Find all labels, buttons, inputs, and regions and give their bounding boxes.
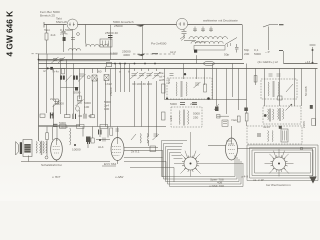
svg-text:Schaltdraht frei: Schaltdraht frei: [41, 163, 62, 167]
ganged capacitor link dashed right: [133, 53, 176, 55]
svg-text:100: 100: [104, 107, 109, 111]
svg-text:r2: r2: [43, 69, 46, 73]
tube socket A with pins: [184, 157, 197, 170]
parts left of V2: [88, 138, 90, 144]
wire x=294: [294, 69, 296, 107]
small box under coil: [194, 46, 225, 51]
power tube V2 oval: [111, 138, 124, 161]
resistor on wire 3: [100, 124, 108, 128]
resistor small: [56, 99, 59, 104]
svg-text:bei Wechselstrom: bei Wechselstrom: [266, 183, 291, 187]
resistor R1: [45, 33, 48, 40]
padder dark bar: [63, 37, 66, 41]
small resistor + link wire: [217, 115, 221, 119]
wire x=67: [66, 60, 68, 116]
dark blob right: [215, 107, 219, 112]
IF box 1 center dashed: [167, 78, 212, 99]
wire x=110: [110, 69, 112, 127]
svg-text:Pw 2x4500: Pw 2x4500: [151, 42, 167, 46]
capacitor C2: [108, 36, 113, 38]
wire x=54: [53, 69, 55, 127]
wire x=204: [204, 69, 206, 86]
wire dash right end: [279, 50, 283, 52]
ganged capacitor link dashes left: [32, 53, 39, 55]
arrow on dashed link: [137, 54, 146, 57]
trimmer ticks above box1: [170, 74, 174, 76]
wire x=212: [212, 64, 214, 100]
resistor on wire 1: [60, 124, 67, 128]
svg-text:2x1: 2x1: [50, 97, 55, 101]
wire x=125: [124, 64, 126, 93]
dark blob x=246: [244, 108, 248, 112]
svg-text:u 7D7: u 7D7: [52, 175, 61, 179]
svg-text:1312: 1312: [105, 82, 112, 86]
coil L2 humps: [86, 44, 108, 46]
svg-text:~ P: ~ P: [265, 50, 270, 54]
connecting wire: [165, 99, 247, 101]
svg-text:u NSF 708: u NSF 708: [209, 184, 224, 188]
svg-text:a: a: [119, 70, 121, 74]
wire x=156: [156, 69, 158, 138]
resistor R6: [65, 115, 71, 118]
electrolytic dark bars pair 2: [73, 76, 75, 80]
caps in filter: [257, 134, 261, 136]
svg-text:5000: 5000: [254, 52, 261, 56]
wire x=129.5: [129, 64, 131, 93]
svg-text:EVV 664: EVV 664: [104, 162, 116, 166]
svg-text:4000: 4000: [123, 53, 130, 57]
wire x=60: [60, 60, 62, 115]
rectifier tube V3 oval: [226, 138, 238, 160]
wire x=315: [315, 69, 317, 127]
parts inside box1 right: [194, 82, 201, 88]
label plate under V2: [102, 165, 116, 167]
diode D1: [51, 113, 54, 119]
svg-text:50p: 50p: [224, 53, 229, 57]
wire x=105: [105, 67, 107, 127]
wire x=301.5: [301, 69, 303, 107]
mid horizontal wire y=126.5: [39, 125, 167, 126]
wire x=92: [92, 69, 94, 116]
junction dots on bus B: [114, 63, 156, 65]
capacitor C9: [53, 124, 58, 126]
output tube V1 oval: [51, 138, 63, 160]
svg-text:Takt: Takt: [44, 28, 50, 32]
svg-text:25 4x: 25 4x: [60, 32, 68, 36]
svg-text:a b c d: a b c d: [196, 40, 206, 44]
dial lamp L2: [176, 18, 187, 29]
cap bars above V2: [99, 130, 102, 135]
svg-text:b: b: [128, 70, 130, 74]
wires from socket A to left: [162, 141, 188, 187]
wire x=46 lower: [46, 60, 48, 114]
bus A y=60: [39, 60, 243, 61]
trimmer row of 4: [130, 72, 161, 79]
coil L3 humps row2: [191, 41, 223, 43]
resistor below bus: [62, 68, 65, 74]
wire x=217: [216, 69, 218, 107]
arrow on top bus: [136, 25, 145, 27]
bandfilter box B1: [100, 39, 112, 47]
wire x=98: [97, 69, 99, 127]
trimmer C3: [182, 29, 187, 38]
svg-text:Tr 4x: Tr 4x: [52, 70, 59, 74]
svg-text:100: 100: [84, 105, 89, 109]
small circle node: [207, 97, 210, 100]
dark blob on link: [75, 87, 78, 91]
dial lamp L1: [67, 19, 78, 30]
wire end tick: [279, 24, 284, 26]
resistor above V2: [110, 128, 113, 135]
wire x=79: [79, 69, 81, 127]
svg-text:220V: 220V: [302, 120, 306, 128]
top bus wire y=24.5: [44, 24, 242, 26]
caps cluster between boxes: [180, 103, 197, 105]
bottom wire: [21, 161, 110, 163]
diag arrow: [131, 134, 136, 140]
wire x=134: [134, 69, 136, 127]
svg-text:60: 60: [98, 70, 102, 74]
svg-text:wahlweise mit Drucktaste: wahlweise mit Drucktaste: [203, 19, 238, 23]
choke windings right of V2: [140, 134, 141, 144]
svg-text:50 608: 50 608: [304, 86, 308, 96]
wire x=110 down: [110, 25, 112, 60]
tick above right rail: [310, 44, 316, 46]
svg-text:2000: 2000: [190, 102, 197, 106]
wire x=142 down: [142, 25, 144, 60]
heater wiring loops bottom: [162, 141, 319, 187]
svg-text:2x4: 2x4: [51, 33, 56, 37]
IF box 2 center dashed: [171, 107, 202, 127]
switch cluster box: [222, 120, 228, 126]
wire x=279: [279, 69, 281, 107]
ground arrow right: [312, 149, 314, 177]
svg-text:5000: 5000: [170, 102, 177, 106]
wire x=74: [73, 64, 75, 115]
diag arrow right: [214, 104, 219, 110]
dot: [51, 114, 53, 116]
box with X: [92, 75, 97, 81]
tube socket B with pins: [273, 157, 286, 170]
left rail x=39: [38, 54, 40, 142]
winding pair: [178, 111, 181, 125]
model label 4 GW 646 K: [5, 11, 15, 57]
socket A rim pin stubs: [182, 155, 199, 171]
junction circle on mains wire: [300, 147, 303, 150]
dark blob component: [86, 137, 91, 143]
winding pair: [175, 82, 178, 96]
IF transformer right box 2: [263, 106, 301, 124]
svg-text:w25: w25: [159, 78, 165, 82]
grid cap dot: [45, 156, 48, 159]
varistor left: [53, 100, 61, 107]
wire x=47 short: [46, 54, 48, 60]
wire x=255 short: [255, 69, 257, 86]
wire x=120: [120, 64, 122, 93]
resistor R5: [40, 114, 45, 117]
svg-text:25000: 25000: [109, 87, 113, 96]
oval core L4: [204, 61, 215, 65]
wire under L1: [72, 29, 74, 59]
bus B y=63.8: [39, 63, 318, 65]
ganged capacitor link wire: [39, 53, 118, 55]
svg-text:30 100 30 100: 30 100 30 100: [132, 82, 152, 86]
small box lower: [78, 96, 82, 101]
trimmer mid with arrow: [76, 100, 84, 107]
wire x=115: [115, 64, 117, 93]
wire x=242 down: [242, 25, 244, 60]
value and note labels (scan microtext): [40, 10, 311, 188]
svg-text:25000 40: 25000 40: [105, 31, 118, 35]
junction square: [194, 50, 197, 53]
small oval core: [76, 106, 80, 111]
socket B rim pin stubs: [271, 155, 288, 171]
capacitor C4: [235, 44, 239, 53]
small circle node: [77, 33, 80, 36]
svg-text:Netz: Netz: [232, 118, 239, 122]
wire corner to bus B: [283, 51, 285, 64]
capacitor C1: [62, 25, 66, 53]
svg-text:5 500: 5 500: [110, 52, 118, 56]
coil L3 humps row1: [189, 37, 227, 39]
link wire y=87.7: [61, 87, 79, 89]
svg-text:+13: +13: [305, 60, 311, 64]
svg-text:5000: 5000: [74, 91, 81, 95]
svg-text:x13: x13: [169, 116, 173, 121]
wires into tube V1: [53, 127, 58, 142]
wires right of tube V2: [124, 147, 163, 150]
resistor on wire 2: [77, 124, 85, 128]
switch S1 arm: [225, 38, 237, 45]
svg-text:(2x GEFF+) x2: (2x GEFF+) x2: [258, 60, 279, 64]
transformer windings: [36, 142, 41, 154]
wire x=313 top: [312, 47, 314, 64]
wire x=226: [226, 69, 228, 115]
wire to coil: [184, 40, 196, 42]
resistor above tube V1: [46, 133, 49, 140]
svg-text:10000: 10000: [72, 148, 81, 152]
marks under C3: [180, 36, 185, 41]
resistor box: [237, 116, 240, 122]
trimmer arrow 2: [78, 74, 86, 82]
junction dots: [38, 59, 40, 61]
svg-text:200: 200: [244, 52, 249, 56]
IF transformer right box 1: [261, 79, 297, 99]
svg-text:NSF: NSF: [167, 78, 171, 84]
wire x=238: [238, 69, 240, 111]
wire x=83 low: [83, 127, 88, 149]
marks above V2 right: [116, 129, 120, 131]
svg-text:u AB2: u AB2: [115, 175, 124, 179]
svg-text:Bereich 25: Bereich 25: [40, 14, 55, 18]
svg-text:25000: 25000: [114, 24, 123, 28]
trimmer arrow 1: [66, 75, 72, 82]
svg-text:5000: 5000: [57, 102, 64, 106]
lower filter box: [247, 126, 302, 144]
bus C y=68.4: [39, 68, 318, 70]
svg-text:4x13: 4x13: [263, 125, 270, 129]
trimmer ticks above right IF windings: [269, 74, 281, 76]
wire step right: [263, 25, 278, 28]
box with X 2: [104, 75, 109, 81]
wire x=246: [246, 64, 248, 127]
resistor on x=255: [254, 76, 257, 83]
wire x=264: [264, 69, 266, 107]
svg-text:AL4: AL4: [98, 145, 104, 149]
svg-text:tol 2: tol 2: [170, 50, 176, 54]
wire x=197: [196, 55, 198, 79]
wire into L2: [85, 25, 87, 44]
wire x=183: [183, 64, 185, 80]
junction dot: [74, 144, 76, 146]
wire x=164: [164, 69, 166, 100]
output transformer: [23, 140, 32, 157]
wire from top bus down at x=46: [46, 25, 48, 34]
wire x=141: [141, 69, 143, 127]
electrolytic dark bars pair 1: [60, 76, 62, 80]
wire x=85: [84, 69, 86, 115]
box on wire: [150, 146, 156, 152]
resistor on x246: [245, 113, 248, 121]
hanging trimmer ticks: [193, 27, 197, 33]
cluster parts: [79, 114, 92, 119]
dash segment: [152, 53, 158, 55]
circle node: [87, 76, 90, 79]
wire x=149: [148, 69, 150, 147]
coupling box on bus: [107, 62, 112, 66]
svg-text:2x 0,1: 2x 0,1: [131, 150, 140, 154]
speaker: [16, 142, 19, 156]
wire x=232: [232, 64, 234, 98]
trimmer cluster at x55: [52, 57, 66, 63]
resistor boxes left of IF boxes: [162, 112, 166, 120]
capacitor C8: [73, 114, 76, 119]
wires to bundle: [124, 158, 174, 168]
svg-text:MW-LW: MW-LW: [56, 20, 67, 24]
resistor R7: [90, 115, 95, 118]
coil humps small left: [69, 49, 81, 51]
svg-text:u 4-8: u 4-8: [241, 175, 248, 179]
svg-text:4 GW 646 K: 4 GW 646 K: [5, 11, 15, 57]
svg-text:10000: 10000: [59, 125, 68, 129]
short drops to parts row: [93, 127, 109, 139]
wire x=268 down: [268, 27, 270, 51]
svg-text:250: 250: [193, 116, 198, 120]
svg-text:ca. 1 W: ca. 1 W: [253, 178, 265, 182]
choke winding vertical: [70, 128, 71, 145]
